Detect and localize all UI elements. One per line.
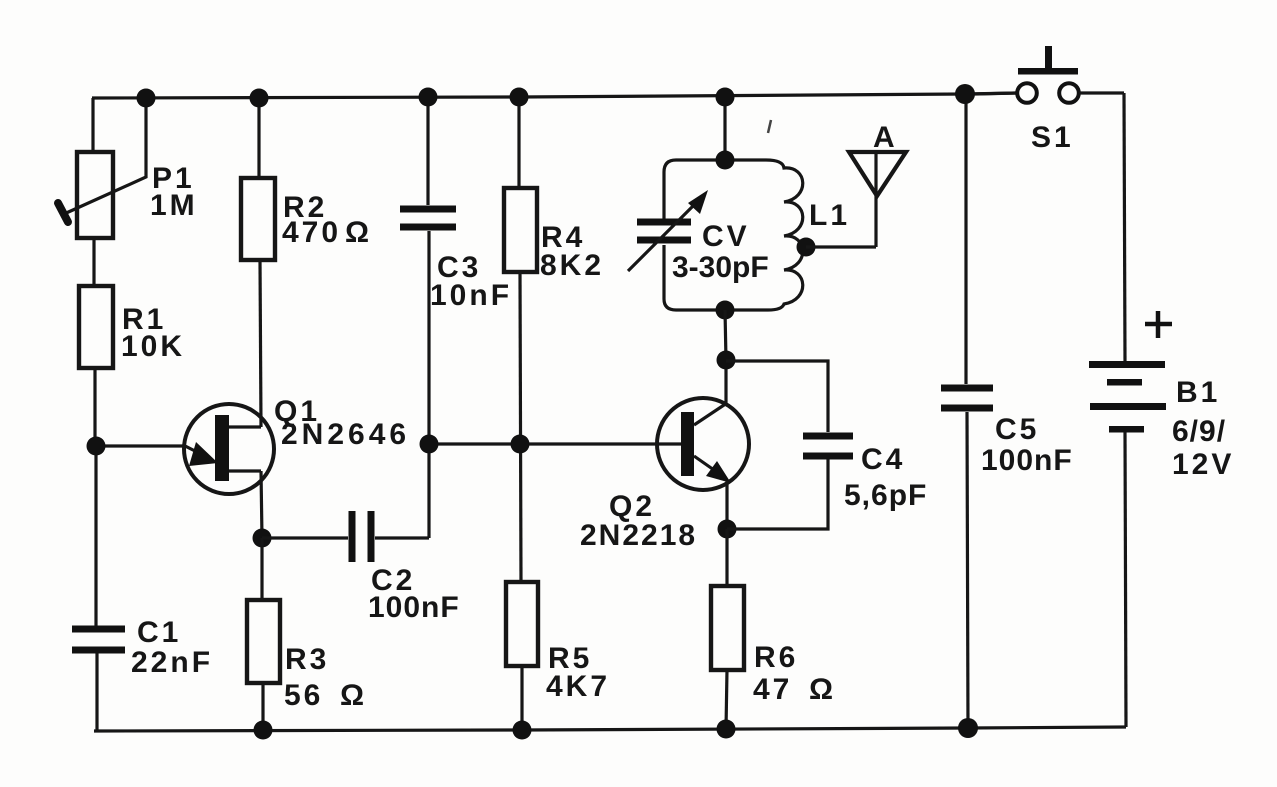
wire R3 top lead (260, 538, 263, 600)
resistor R5 (506, 582, 610, 703)
capacitor C2 (352, 511, 460, 624)
svg-text:C1: C1 (137, 616, 181, 649)
wire C2 left lead (262, 536, 348, 539)
svg-text:3-30pF: 3-30pF (672, 251, 769, 284)
svg-text:100nF: 100nF (368, 591, 460, 624)
wire R6 top lead (725, 529, 728, 586)
wire R1 to emitter node (93, 367, 96, 446)
svg-text:R3: R3 (285, 643, 329, 676)
svg-text:Ω: Ω (345, 216, 372, 249)
scan speck (768, 120, 771, 133)
capacitor CV (variable) (628, 160, 769, 310)
resistor R2 (241, 178, 372, 260)
resistor R3 (247, 600, 367, 712)
svg-text:47: 47 (753, 673, 792, 706)
svg-text:8K2: 8K2 (540, 249, 604, 282)
svg-text:C5: C5 (995, 413, 1039, 446)
wire tank bottom to collector node (725, 310, 726, 360)
wire R2 to Q1 base2 (260, 260, 261, 427)
wire L1 tap to antenna (806, 245, 876, 248)
wire R6 to bottom rail (726, 670, 727, 729)
svg-text:2N2646: 2N2646 (281, 418, 410, 451)
wire R2 top lead (257, 98, 260, 178)
wire tank top lead (723, 97, 726, 160)
transistor Q1 (UJT 2N2646) (96, 395, 410, 494)
svg-text:L1: L1 (809, 199, 850, 232)
svg-text:22nF: 22nF (131, 646, 213, 679)
node bottom rail R6 (717, 720, 736, 739)
wire C1 to bottom rail (95, 652, 98, 731)
svg-text:2N2218: 2N2218 (580, 519, 697, 552)
battery B1 (1089, 311, 1234, 481)
resistor R6 (711, 586, 836, 706)
node base line R4 (511, 435, 530, 454)
antenna A (849, 121, 906, 247)
svg-text:C4: C4 (861, 443, 905, 476)
node top rail C3 (419, 88, 438, 107)
svg-text:10K: 10K (121, 330, 185, 363)
wire battery to bottom rail (1125, 432, 1126, 727)
svg-text:Ω: Ω (340, 679, 367, 712)
svg-text:5,6pF: 5,6pF (844, 479, 927, 512)
capacitor C5 (941, 388, 1073, 477)
wire R4 top lead (517, 97, 520, 188)
svg-text:12V: 12V (1172, 448, 1234, 481)
svg-text:S1: S1 (1031, 121, 1074, 154)
wire R4 to R5 (520, 272, 521, 582)
svg-text:4K7: 4K7 (546, 670, 610, 703)
node top rail P1 wiper (137, 89, 156, 108)
svg-text:1M: 1M (150, 189, 198, 222)
wire R3 to bottom rail (261, 683, 264, 730)
svg-text:100nF: 100nF (981, 444, 1073, 477)
switch S1 (975, 46, 1124, 154)
wire Q1 base1 to C2 node (261, 471, 262, 538)
wire C5 top lead (964, 95, 967, 384)
wire left column top (rail to P1) (91, 98, 94, 152)
node tank top (716, 151, 735, 170)
svg-text:470: 470 (282, 216, 341, 249)
wire top supply rail (92, 93, 1018, 98)
capacitor C3 (400, 209, 512, 312)
wire C2 right lead (375, 536, 429, 539)
node top rail R2 (250, 89, 269, 108)
wire R5 to bottom rail (520, 666, 523, 730)
wire Q2 collector (724, 360, 727, 403)
node C2/R3 junction (253, 529, 272, 548)
node top rail C5 (955, 84, 975, 104)
svg-text:10nF: 10nF (430, 279, 512, 312)
inductor L1 (725, 160, 850, 310)
capacitor C1 (72, 616, 213, 679)
svg-text:6/9/: 6/9/ (1172, 415, 1226, 448)
wire C4 bottom branch (727, 459, 828, 529)
node bottom rail R3 (254, 721, 273, 740)
wire base line Q2 (429, 442, 681, 445)
node bottom rail R5 (513, 721, 532, 740)
resistor R4 (504, 188, 604, 282)
wire P1 to R1 (92, 237, 95, 286)
wire emitter node to C1 (94, 446, 97, 626)
svg-text:Ω: Ω (809, 673, 836, 706)
node L1 tap (797, 238, 816, 257)
wire C3 to base line / C2 (427, 231, 430, 538)
svg-text:R6: R6 (754, 641, 798, 674)
wire bottom ground rail (94, 727, 1126, 731)
svg-text:A: A (873, 121, 898, 154)
transistor Q2 (2N2218) (580, 398, 749, 552)
node Q2 collector (717, 351, 736, 370)
wire C3 top lead (426, 97, 429, 205)
node Q2 emitter (718, 520, 737, 539)
node top rail tank (716, 88, 735, 107)
svg-text:56: 56 (284, 679, 323, 712)
node bottom rail C5 (958, 718, 978, 738)
wire S1 to battery (1124, 93, 1125, 361)
node tank bottom (716, 301, 735, 320)
resistor R1 (79, 286, 185, 368)
node top rail R4 (510, 88, 529, 107)
capacitor C4 (803, 436, 927, 512)
wire C4 top branch (726, 361, 828, 432)
svg-text:CV: CV (702, 220, 750, 253)
wire C5 to bottom rail (967, 412, 968, 728)
node Q1 emitter (87, 437, 106, 456)
svg-text:B1: B1 (1176, 376, 1220, 409)
wire Q2 emitter to node (725, 481, 728, 529)
node base line C3 (420, 435, 439, 454)
potentiometer P1 (58, 99, 198, 238)
